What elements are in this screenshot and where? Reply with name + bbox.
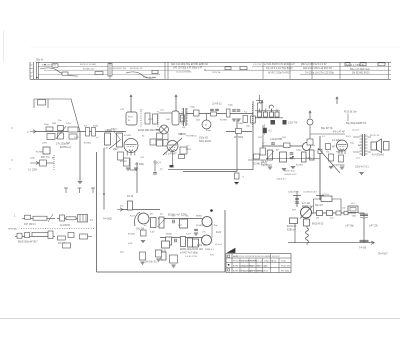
svg-text:1M: 1M [182, 127, 185, 129]
svg-text:DC: DC [187, 146, 191, 148]
svg-text:L14 BV20: L14 BV20 [60, 225, 71, 227]
svg-text:AF R17 220p Tr4 R17: AF R17 220p Tr4 R17 [268, 71, 291, 74]
svg-text:1kΩ R-23 125V L14 R17 W7: 1kΩ R-23 125V L14 R17 W7 [303, 68, 333, 70]
svg-text:4n7 1M: 4n7 1M [302, 203, 310, 205]
svg-text:0.1 u.47 W7: 0.1 u.47 W7 [164, 154, 177, 156]
svg-text:ECH81: ECH81 [120, 161, 128, 163]
svg-text:Tr4 1M: Tr4 1M [359, 247, 366, 250]
svg-text:1M 500p: 1M 500p [135, 164, 145, 166]
svg-text:125V Tr4: 125V Tr4 [288, 122, 298, 125]
svg-text:2M2: 2M2 [113, 149, 118, 151]
svg-text:1kΩ: 1kΩ [166, 119, 170, 121]
svg-text:220p: 220p [228, 105, 234, 107]
svg-text:220p: 220p [107, 130, 113, 132]
svg-text:R-23 R17 1M: R-23 R17 1M [113, 68, 126, 70]
svg-text:1M 10n S2: 1M 10n S2 [145, 261, 157, 264]
svg-text:1M ECH81 BV20: 1M ECH81 BV20 [352, 73, 370, 75]
svg-text:TH4 007: TH4 007 [378, 253, 388, 256]
svg-text:1kΩ: 1kΩ [196, 120, 200, 122]
svg-text:Tr4 2M2: Tr4 2M2 [103, 218, 112, 221]
svg-text:220p: 220p [296, 150, 302, 152]
svg-text:ECH81: ECH81 [124, 135, 132, 137]
svg-text:ECH81: ECH81 [36, 152, 44, 154]
svg-text:R-23: R-23 [346, 136, 352, 138]
svg-text:a-f: a-f [262, 143, 265, 145]
svg-text:1kΩ: 1kΩ [282, 137, 286, 139]
svg-text:187B: 187B [186, 149, 192, 151]
svg-text:EZ80: EZ80 [266, 256, 272, 258]
svg-text:500p: 500p [190, 107, 196, 109]
svg-text:1M AF: 1M AF [261, 161, 268, 164]
svg-text:EM80: EM80 [196, 216, 202, 218]
svg-text:ECH81 0,22: ECH81 0,22 [285, 174, 298, 176]
svg-text:1M: 1M [326, 152, 329, 154]
svg-text:ECH81 a-f: ECH81 a-f [60, 146, 71, 149]
svg-text:a-f C41 BV20 6.3V EC92 u.47: a-f C41 BV20 6.3V EC92 u.47 [264, 64, 295, 66]
svg-text:a-f R17 4n7 500p: a-f R17 4n7 500p [180, 253, 198, 255]
svg-text:ECH81: ECH81 [84, 143, 92, 145]
svg-text:ECH81 4n7 EZ80: ECH81 4n7 EZ80 [168, 214, 187, 217]
svg-text:BV20 R-23: BV20 R-23 [312, 224, 324, 226]
svg-text:u.47 50µ: u.47 50µ [345, 226, 355, 228]
svg-text:50µ 500p EM80 Tr4: 50µ 500p EM80 Tr4 [346, 122, 367, 125]
svg-text:a-f: a-f [96, 137, 99, 139]
svg-text:V: V [205, 123, 207, 127]
svg-text:L14 R-23: L14 R-23 [212, 104, 222, 106]
svg-text:50µ W7: 50µ W7 [315, 205, 324, 207]
svg-text:Y: Y [27, 130, 29, 134]
svg-text:ECH81: ECH81 [196, 225, 204, 227]
svg-text:500p EC92: 500p EC92 [199, 140, 212, 143]
svg-text:125V 4n7 0.1: 125V 4n7 0.1 [355, 167, 369, 169]
svg-text:R-23: R-23 [250, 270, 256, 272]
svg-text:ECH81 4n7: ECH81 4n7 [83, 68, 95, 70]
svg-text:2M2 a-f 2M2 S2 0.1 6.3V: 2M2 a-f 2M2 S2 0.1 6.3V [301, 64, 327, 66]
svg-text:EZ80 0.1: EZ80 0.1 [205, 249, 215, 251]
svg-text:6.3V: 6.3V [150, 232, 155, 234]
svg-text:6.3V: 6.3V [128, 243, 133, 245]
svg-text:125V: 125V [66, 123, 72, 125]
svg-text:125V: 125V [42, 143, 48, 145]
svg-text:500p: 500p [206, 130, 212, 132]
svg-text:500p: 500p [238, 123, 244, 125]
svg-text:220p Tr4: 220p Tr4 [197, 244, 207, 247]
svg-text:1kΩ: 1kΩ [246, 126, 250, 128]
svg-text:ECH81: ECH81 [220, 120, 228, 122]
svg-text:C41 L14 50µ u.47 500p u.47: C41 L14 50µ u.47 500p u.47 [173, 67, 203, 69]
svg-text:500p R17 C41: 500p R17 C41 [42, 64, 57, 66]
svg-text:500p: 500p [44, 124, 50, 126]
svg-text:ECH81: ECH81 [250, 261, 258, 263]
svg-text:EM80: EM80 [336, 152, 342, 154]
svg-text:EM80: EM80 [257, 270, 263, 272]
svg-text:50µ W7 3b: 50µ W7 3b [321, 127, 333, 130]
svg-text:1kΩ C41 220p 50µ ECH81 EZ80 S2: 1kΩ C41 220p 50µ ECH81 EZ80 S2 [171, 64, 209, 66]
svg-text:0.1 125V: 0.1 125V [28, 170, 38, 172]
svg-text:220p BV20: 220p BV20 [288, 192, 300, 194]
svg-text:u.47 27k: u.47 27k [369, 226, 379, 228]
svg-text:6.3V: 6.3V [186, 234, 191, 236]
svg-text:0,22 BV20: 0,22 BV20 [261, 165, 272, 167]
svg-text:R-23 3b 10n: R-23 3b 10n [344, 112, 357, 114]
svg-text:Tr4 220p L14 27k 0,22 500p: Tr4 220p L14 27k 0,22 500p [305, 71, 334, 74]
svg-text:220p: 220p [30, 158, 36, 160]
svg-text:1M: 1M [316, 218, 319, 220]
svg-text:Dim 4c: Dim 4c [36, 59, 44, 62]
svg-text:L14 10n ECH81: L14 10n ECH81 [176, 72, 192, 74]
svg-text:L14 0.1: L14 0.1 [352, 130, 360, 132]
svg-text:R-23 L14: R-23 L14 [370, 135, 380, 137]
svg-text:S2 10n: S2 10n [322, 194, 330, 196]
svg-text:220p 3b 10n: 220p 3b 10n [143, 77, 156, 79]
svg-text:EM80 220p BV20 1kΩ: EM80 220p BV20 1kΩ [180, 249, 203, 251]
svg-text:a-f: a-f [144, 225, 147, 227]
svg-text:W7 500p: W7 500p [234, 137, 244, 139]
svg-text:TA6/C4: TA6/C4 [153, 162, 161, 165]
svg-text:W7 2M2: W7 2M2 [281, 270, 290, 272]
svg-text:0.1 6.3V: 0.1 6.3V [253, 64, 262, 66]
svg-text:ECH: ECH [128, 117, 133, 119]
svg-text:R-23: R-23 [130, 216, 136, 218]
svg-text:EM80: EM80 [166, 234, 172, 236]
svg-text:K4 u.47 AF: K4 u.47 AF [333, 131, 345, 134]
svg-text:K4 W7 500p: K4 W7 500p [332, 165, 345, 167]
svg-text:L14 BV20 4n7: L14 BV20 4n7 [303, 192, 318, 194]
svg-text:R17 Tr4: R17 Tr4 [41, 156, 50, 159]
svg-text:EZ80: EZ80 [93, 126, 99, 128]
svg-text:10n AF 0.1 4n7 50µ BV20: 10n AF 0.1 4n7 50µ BV20 [266, 67, 293, 70]
svg-text:POTMELD: POTMELD [186, 136, 197, 138]
svg-text:SPEZIAL: SPEZIAL [8, 227, 18, 230]
svg-text:125V 3b: 125V 3b [212, 72, 221, 74]
svg-text:Tr4 S2 125V: Tr4 S2 125V [185, 255, 198, 258]
svg-text:125V: 125V [74, 137, 80, 139]
svg-text:EZ80: EZ80 [306, 158, 312, 160]
svg-text:EC92 0.1: EC92 0.1 [287, 226, 297, 228]
svg-text:R-23 K4 L14: R-23 K4 L14 [130, 68, 143, 70]
svg-text:K4 0,22: K4 0,22 [272, 256, 280, 258]
svg-text:4n7 ECH81: 4n7 ECH81 [372, 155, 385, 157]
svg-text:L14 a-f: L14 a-f [215, 244, 222, 246]
svg-text:BV20 1kΩ: BV20 1kΩ [285, 171, 295, 173]
svg-text:R17 1M K4: R17 1M K4 [24, 224, 36, 226]
svg-text:R-23: R-23 [216, 232, 222, 234]
svg-text:50µ u.47 220p 1kΩ: 50µ u.47 220p 1kΩ [350, 69, 370, 71]
svg-text:ECH81: ECH81 [128, 234, 136, 236]
svg-text:BV20 W7: BV20 W7 [281, 265, 291, 267]
svg-text:C41 1M: C41 1M [136, 229, 144, 231]
svg-text:1kΩ 6.3V: 1kΩ 6.3V [277, 179, 287, 181]
svg-text:ECH81: ECH81 [296, 165, 304, 167]
svg-text:S2 K4 a-f 2M2 3b: S2 K4 a-f 2M2 3b [346, 65, 365, 67]
svg-text:K4 3b: K4 3b [127, 195, 134, 198]
svg-text:R-23 0.1 ECH81: R-23 0.1 ECH81 [80, 64, 97, 66]
svg-text:R-23: R-23 [148, 119, 154, 121]
svg-text:BV20 500p AF R17: BV20 500p AF R17 [18, 241, 38, 244]
